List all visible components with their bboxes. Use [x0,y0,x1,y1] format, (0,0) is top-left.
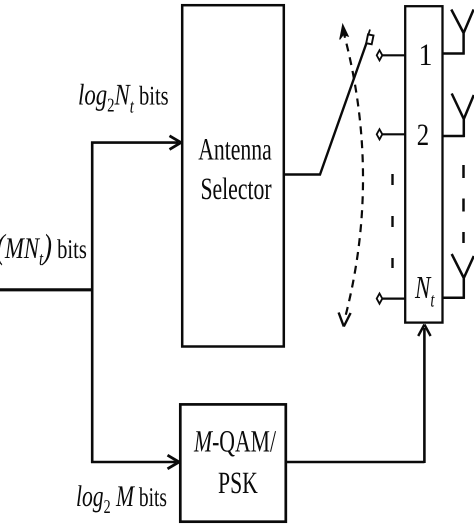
arrowhead into antenna selector [170,136,182,150]
switch arm from selector [284,43,367,175]
svg-text:Antenna: Antenna [198,132,272,167]
svg-text:(MNt) bits: (MNt) bits [0,227,87,270]
svg-text:2: 2 [417,117,429,152]
block U2 M-QAM/PSK modulator [180,404,285,521]
block U1 Antenna Selector [182,5,284,346]
antenna ANt [442,254,474,299]
dashed rotation arc [343,30,363,318]
wire branch to modulator [91,461,176,464]
wire branch to antenna selector [91,141,178,144]
terminal diamond port Nt [377,294,383,304]
arrowhead into modulator [168,455,180,469]
arrowhead arc bottom [339,313,351,327]
wire port 2 stub [382,133,405,135]
antenna A2 [442,94,474,138]
wire port 1 stub [382,54,405,56]
label M-QAM/PSK [193,424,276,501]
wire input line [0,288,92,291]
svg-text:M-QAM/: M-QAM/ [193,424,276,459]
svg-text:1: 1 [419,37,433,72]
wire main vertical bus [91,142,94,464]
antenna A1 [442,10,474,55]
switch arm terminal square [366,34,373,44]
arrowhead into port box bottom [418,325,430,337]
terminal diamond port 2 [377,129,383,139]
svg-text:PSK: PSK [218,465,258,500]
arrowhead arc top [340,25,349,40]
wire port Nt stub [382,298,405,300]
svg-text:Selector: Selector [200,171,272,206]
dashed ellipsis antennas [462,165,465,243]
label Antenna Selector [198,132,272,207]
switch arm overshoot tick [368,30,370,36]
terminal diamond port 1 [377,50,383,60]
block U3 antenna port bank [405,6,442,322]
dashed ellipsis terminals [391,174,393,268]
wire modulator output to port box [286,328,424,463]
